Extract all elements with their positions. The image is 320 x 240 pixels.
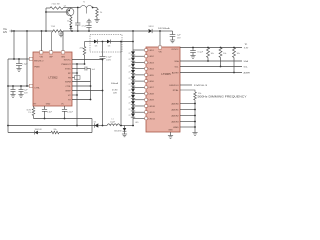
svg-text:3.3µF: 3.3µF bbox=[47, 112, 53, 114]
svg-text:LED6: LED6 bbox=[149, 81, 155, 83]
wire bus x90.5 bbox=[90, 69, 92, 100]
svg-text:LED1: LED1 bbox=[149, 50, 155, 52]
inductor L2 top humps bbox=[78, 7, 80, 9]
wire RT bbox=[72, 99, 91, 101]
capacitor C8 1uF bbox=[170, 34, 176, 36]
junction x93 y7.5 bbox=[92, 7, 94, 9]
capacitor C3 bypass up at x89 bbox=[88, 28, 90, 32]
svg-text:LED7: LED7 bbox=[149, 87, 155, 89]
junction C9 bottom bbox=[44, 118, 46, 120]
svg-text:SDA: SDA bbox=[244, 60, 249, 63]
svg-text:22: 22 bbox=[129, 84, 131, 86]
junction x121 y125.5 bbox=[120, 125, 122, 127]
U1 top pin VIN box bbox=[40, 51, 43, 54]
LED D14 in chain bbox=[132, 75, 134, 76]
LED D12 in chain bbox=[132, 62, 134, 63]
wire Q1 base feed bbox=[46, 11, 68, 13]
svg-text:22: 22 bbox=[129, 65, 131, 67]
wire EN line bbox=[8, 58, 29, 60]
wire CTRL bbox=[72, 85, 91, 87]
svg-text:LED12: LED12 bbox=[149, 118, 156, 120]
svg-text:7.4Ω 1W: 7.4Ω 1W bbox=[51, 4, 59, 6]
ground C7a bbox=[10, 94, 15, 96]
wire RT/AL U2 bbox=[180, 90, 195, 92]
svg-text:LED5: LED5 bbox=[149, 75, 155, 77]
LED D19 in chain bbox=[132, 106, 134, 107]
junction x46 y12 bbox=[45, 11, 47, 13]
LED D17 in chain bbox=[132, 94, 134, 95]
svg-text:ADDR2: ADDR2 bbox=[172, 115, 180, 118]
svg-text:16V: 16V bbox=[177, 38, 181, 40]
svg-text:INTVCC: INTVCC bbox=[172, 49, 180, 51]
wire LED tap 12 bbox=[133, 117, 144, 119]
junction bus x77 bottom bbox=[76, 125, 78, 127]
capacitor C10 0.22uF below U1 bbox=[64, 106, 66, 109]
U1 left pin CTRL box bbox=[29, 84, 32, 87]
wires ADDR pins bbox=[180, 103, 195, 105]
wire LED tap 6 bbox=[133, 80, 144, 82]
svg-text:LED8: LED8 bbox=[149, 93, 155, 95]
junction R5 PWMOUT bbox=[84, 63, 86, 65]
svg-text:RT/AL: RT/AL bbox=[173, 89, 180, 92]
wire LED tap 9 bbox=[133, 99, 144, 101]
junction x27 y86 bbox=[26, 85, 28, 87]
capacitor C7a 1uF 50V bbox=[12, 86, 14, 90]
svg-text:24V/100mA: 24V/100mA bbox=[158, 27, 170, 30]
resistor R9 10k SCL pullup bbox=[219, 48, 222, 58]
svg-text:22: 22 bbox=[129, 109, 131, 111]
svg-text:LED2: LED2 bbox=[149, 56, 155, 58]
wire R7 to x92 bbox=[59, 132, 92, 134]
wire LED tap 11 bbox=[133, 111, 144, 113]
wire RP bbox=[72, 72, 77, 74]
svg-text:INTVCC: INTVCC bbox=[64, 60, 72, 62]
wire cap branch right bbox=[166, 30, 173, 32]
svg-text:22: 22 bbox=[129, 59, 131, 61]
diode D4 1N4148 bottom left bbox=[34, 130, 36, 134]
wire PWMOUT bbox=[72, 63, 85, 65]
ground R4 bbox=[96, 17, 98, 20]
svg-text:50V: 50V bbox=[24, 92, 28, 94]
ground below rail at x61 bbox=[60, 31, 62, 34]
junction dashed out x133 bbox=[132, 41, 134, 43]
svg-text:7.5Ω: 7.5Ω bbox=[51, 26, 56, 28]
junction R10 ALERT bbox=[233, 72, 235, 74]
svg-text:SYNC: SYNC bbox=[65, 69, 71, 71]
FB option box bbox=[75, 76, 81, 80]
wire charge pump input bbox=[85, 41, 95, 43]
wire U1 ISN drop bbox=[62, 31, 64, 51]
svg-text:2.2µF: 2.2µF bbox=[22, 64, 28, 66]
junction rail x193 bbox=[192, 47, 194, 49]
junction RT x90.5 bbox=[90, 99, 92, 101]
junction VIN rail x133 bbox=[132, 30, 134, 32]
svg-text:22: 22 bbox=[129, 78, 131, 80]
svg-text:ADDR3: ADDR3 bbox=[172, 121, 180, 124]
wire U1 VIN drop bbox=[41, 31, 43, 51]
junction VIN rail x27 bbox=[26, 30, 28, 32]
junction VIN rail x14 bbox=[13, 30, 15, 32]
svg-text:LED4: LED4 bbox=[149, 69, 155, 71]
svg-text:ALERT: ALERT bbox=[244, 72, 251, 75]
wire U2 INTVCC bbox=[180, 47, 242, 49]
svg-text:GND: GND bbox=[168, 130, 173, 132]
LED D15 in chain bbox=[132, 81, 134, 82]
svg-text:LT3952: LT3952 bbox=[49, 76, 58, 80]
svg-text:CTRL: CTRL bbox=[34, 87, 40, 89]
junction VIN rail x160 bbox=[159, 30, 161, 32]
wire to R4 bbox=[93, 7, 97, 9]
resistor R7 20k bbox=[51, 131, 59, 134]
resistor R4 2k pulldown bbox=[96, 8, 98, 9]
resistor R8 10k SDA pullup bbox=[207, 48, 210, 58]
wire Q1 emitter up bbox=[70, 8, 72, 9]
junction R9 SCL bbox=[220, 66, 222, 68]
LED D10 in chain bbox=[132, 50, 134, 51]
wire U2 VIN drop bbox=[159, 31, 161, 46]
junction x14 y59 bbox=[13, 58, 15, 60]
U2 left LED pin boxes bbox=[145, 49, 148, 52]
svg-text:SSFM: SSFM bbox=[65, 82, 71, 84]
svg-text:ADDR1: ADDR1 bbox=[172, 109, 180, 112]
U1 top pin ISN box bbox=[61, 51, 64, 54]
junction VIN rail x89 bbox=[88, 30, 90, 32]
ground C8 bbox=[170, 39, 175, 41]
wire LED tap 4 bbox=[133, 68, 144, 70]
wire bottom upper y125.5 bbox=[8, 125, 95, 127]
resistor R5 22k bbox=[84, 42, 86, 47]
junction x102.5 y125.5 bbox=[102, 125, 104, 127]
junction RP x77 bbox=[76, 72, 78, 74]
U1 top pin ISP box bbox=[49, 51, 52, 54]
svg-text:10µH: 10µH bbox=[110, 122, 116, 124]
junction PWMOUT x77 bbox=[76, 63, 78, 65]
svg-text:4 LED: 4 LED bbox=[112, 90, 118, 92]
junction VIN rail x41.5 bbox=[41, 30, 43, 32]
wire SCL bbox=[180, 66, 242, 68]
junction x8 y86 bbox=[7, 85, 9, 87]
svg-text:1%: 1% bbox=[28, 112, 31, 114]
svg-text:22: 22 bbox=[129, 72, 131, 74]
capacitor C2 on x77.8 bbox=[77, 8, 79, 24]
junction dashed out x121 bbox=[120, 41, 122, 43]
capacitor C7b 1uF 50V bbox=[20, 86, 22, 90]
wire LED tap 2 bbox=[133, 55, 144, 57]
ground addr bus bbox=[192, 132, 197, 134]
LED D16 in chain bbox=[132, 87, 134, 88]
svg-text:0.22µF: 0.22µF bbox=[67, 112, 74, 114]
wire SYNC with cap C5 bbox=[72, 68, 85, 70]
wire VIN rail bbox=[13, 30, 54, 32]
junction CTRL x90.5 bbox=[90, 85, 92, 87]
svg-text:12V: 12V bbox=[3, 32, 8, 34]
diode D3b bbox=[103, 41, 108, 43]
wire VIN drop x27 to PWM bbox=[26, 31, 28, 86]
LED D20 in chain bbox=[132, 112, 134, 113]
junction rail x220.5 bbox=[220, 47, 222, 49]
junction VIN rail x77.8 bbox=[77, 30, 79, 32]
svg-text:PWMOUT: PWMOUT bbox=[61, 64, 71, 66]
wire LED tap 7 bbox=[133, 86, 144, 88]
diode D5 bottom bbox=[94, 123, 96, 128]
svg-text:22: 22 bbox=[129, 90, 131, 92]
wire INTVCC bbox=[72, 59, 103, 61]
wire R11 to addr bus bbox=[194, 100, 196, 133]
wire VIN drop x14 to EN bbox=[13, 31, 15, 59]
resistor R10 10k ALERT pullup bbox=[233, 48, 236, 58]
svg-text:22: 22 bbox=[129, 96, 131, 98]
wire LED tap 3 bbox=[133, 61, 144, 63]
LED D11 in chain bbox=[132, 56, 134, 57]
svg-text:1N4148: 1N4148 bbox=[34, 129, 42, 131]
wire U2 GND bbox=[170, 132, 172, 136]
LED D18 in chain bbox=[132, 100, 134, 101]
svg-text:VREF: VREF bbox=[65, 91, 71, 93]
svg-text:22: 22 bbox=[129, 115, 131, 117]
junction VIN rail x46 bbox=[45, 30, 47, 32]
IC U1 LT3952 LED driver bbox=[33, 52, 72, 106]
svg-text:ISN: ISN bbox=[61, 56, 65, 58]
wire chain bottom bbox=[132, 118, 134, 125]
svg-text:22: 22 bbox=[129, 103, 131, 105]
svg-text:500Hz DIMMING FREQUENCY: 500Hz DIMMING FREQUENCY bbox=[198, 96, 248, 98]
svg-text:20k: 20k bbox=[53, 129, 56, 131]
IC U2 LT3965 matrix dimmer bbox=[146, 47, 180, 132]
wire bus x77 bbox=[76, 64, 78, 126]
svg-text:PWM: PWM bbox=[34, 67, 39, 69]
inductor L1 10uH bbox=[107, 124, 120, 126]
ground C7b bbox=[18, 94, 23, 96]
wire VREF bbox=[72, 90, 103, 92]
wire x46 vertical bbox=[45, 8, 47, 31]
diode D3a bbox=[94, 40, 97, 44]
U2 top pin VIN box bbox=[158, 46, 161, 49]
wire EN/UVLO U2 bbox=[180, 84, 192, 86]
ground C6 bbox=[16, 68, 21, 70]
svg-text:500mA: 500mA bbox=[111, 82, 118, 85]
svg-text:CTRL: CTRL bbox=[65, 86, 71, 88]
svg-text:LED3: LED3 bbox=[149, 62, 155, 64]
VIN input arrow bbox=[10, 30, 13, 32]
wire LED tap 10 bbox=[133, 105, 144, 107]
junction C4 INTVCC bbox=[102, 59, 104, 61]
wire x92 down bbox=[91, 119, 93, 133]
svg-text:D4: D4 bbox=[94, 122, 96, 124]
svg-text:ADDR0: ADDR0 bbox=[172, 103, 180, 106]
svg-text:T1: T1 bbox=[83, 1, 85, 3]
svg-text:LSMD: LSMD bbox=[173, 127, 179, 129]
junction x102.5 y90.5 bbox=[102, 90, 104, 92]
junction rail x208 bbox=[207, 47, 209, 49]
ground C11 bbox=[190, 55, 195, 57]
svg-text:LED10: LED10 bbox=[149, 106, 156, 108]
wire FB stub bbox=[72, 77, 75, 79]
junction x77.8 y7.5 bbox=[77, 7, 79, 9]
junction C10 bottom bbox=[64, 118, 66, 120]
resistor R1 7.4 ohm top bbox=[46, 7, 50, 9]
svg-text:10R: 10R bbox=[113, 92, 117, 94]
capacitor C11 0.1uF bbox=[192, 48, 194, 51]
svg-text:ALERT: ALERT bbox=[172, 72, 179, 75]
diode D2 series in rail bbox=[149, 29, 153, 33]
wire SDA bbox=[180, 60, 242, 62]
svg-text:VL: VL bbox=[245, 44, 248, 46]
wire U1 ISP drop bbox=[51, 31, 53, 51]
U1 left pin EN/UVLO box bbox=[29, 57, 32, 60]
junction x13 y86 bbox=[12, 85, 14, 87]
junction chain bottom bbox=[132, 125, 134, 127]
ground C3 up bbox=[86, 21, 91, 23]
svg-text:LT3965: LT3965 bbox=[161, 72, 171, 76]
wire PWM line bbox=[8, 85, 29, 87]
LED D13 in chain bbox=[132, 69, 134, 70]
wire chain top drop bbox=[132, 31, 134, 50]
wire below-IC node line bbox=[34, 118, 93, 120]
capacitor C9 3.3uF below U1 bbox=[44, 106, 46, 109]
svg-text:LED11: LED11 bbox=[149, 112, 156, 114]
capacitor C4 0.1uF 100V series bbox=[102, 42, 104, 57]
junction x8 y125.5 bbox=[7, 125, 9, 127]
svg-text:EN/UVLO: EN/UVLO bbox=[169, 85, 179, 87]
wire bottom lower y132.5 bbox=[8, 132, 35, 134]
junction R8 SDA bbox=[207, 60, 209, 62]
svg-text:100V: 100V bbox=[106, 59, 112, 61]
wire VC bbox=[72, 94, 77, 96]
svg-text:LED9: LED9 bbox=[149, 100, 155, 102]
svg-text:SDA: SDA bbox=[174, 60, 179, 63]
diode D7 to rail bbox=[69, 26, 72, 29]
resistor R11 29k bbox=[194, 92, 197, 100]
junction VC x77 bbox=[76, 94, 78, 96]
wire FB sense vertical x121 bbox=[120, 42, 122, 126]
wire SSFM bbox=[72, 81, 91, 83]
wire left bus x8 bbox=[7, 59, 9, 133]
wire Q1 collector down bbox=[70, 16, 72, 17]
wire R1 to Q1 emitter bbox=[63, 7, 78, 9]
junction x19 y59 bbox=[18, 58, 20, 60]
resistor R6 30.9k bbox=[33, 106, 35, 108]
junction rail x234 bbox=[233, 47, 235, 49]
ground U2 GND bbox=[168, 135, 173, 137]
svg-text:0.1µF: 0.1µF bbox=[106, 57, 112, 59]
svg-text:0.1µF: 0.1µF bbox=[198, 52, 204, 54]
charge pump dashed box D3 bbox=[90, 35, 122, 53]
svg-text:DW16.3: DW16.3 bbox=[194, 85, 208, 87]
resistor RS 0.04 ohm sense in rail bbox=[53, 30, 63, 33]
svg-text:Q1: Q1 bbox=[64, 6, 67, 8]
svg-text:22: 22 bbox=[129, 53, 131, 55]
wire LED tap 5 bbox=[133, 74, 144, 76]
junction x21 y86 bbox=[20, 85, 22, 87]
wire L1 to chain bbox=[120, 125, 134, 127]
junction charge pump center bbox=[102, 41, 104, 43]
svg-text:B0540W: B0540W bbox=[114, 131, 121, 133]
wire LED tap 8 bbox=[133, 93, 144, 95]
capacitor C6 2.2uF bbox=[18, 59, 20, 64]
svg-text:GND: GND bbox=[46, 103, 51, 105]
wire LED tap 1 bbox=[133, 49, 144, 51]
junction VIN rail x72 bbox=[71, 30, 73, 32]
svg-text:3.3V: 3.3V bbox=[244, 47, 249, 49]
wire ALERT bbox=[180, 72, 242, 74]
resistor R3 1k bbox=[70, 17, 72, 25]
svg-text:EN/UVLO: EN/UVLO bbox=[34, 60, 44, 62]
svg-text:VC: VC bbox=[68, 95, 71, 97]
svg-text:ISP: ISP bbox=[49, 56, 53, 58]
ground D6 bbox=[122, 133, 127, 135]
diode D6 catch to ground bbox=[124, 126, 126, 129]
